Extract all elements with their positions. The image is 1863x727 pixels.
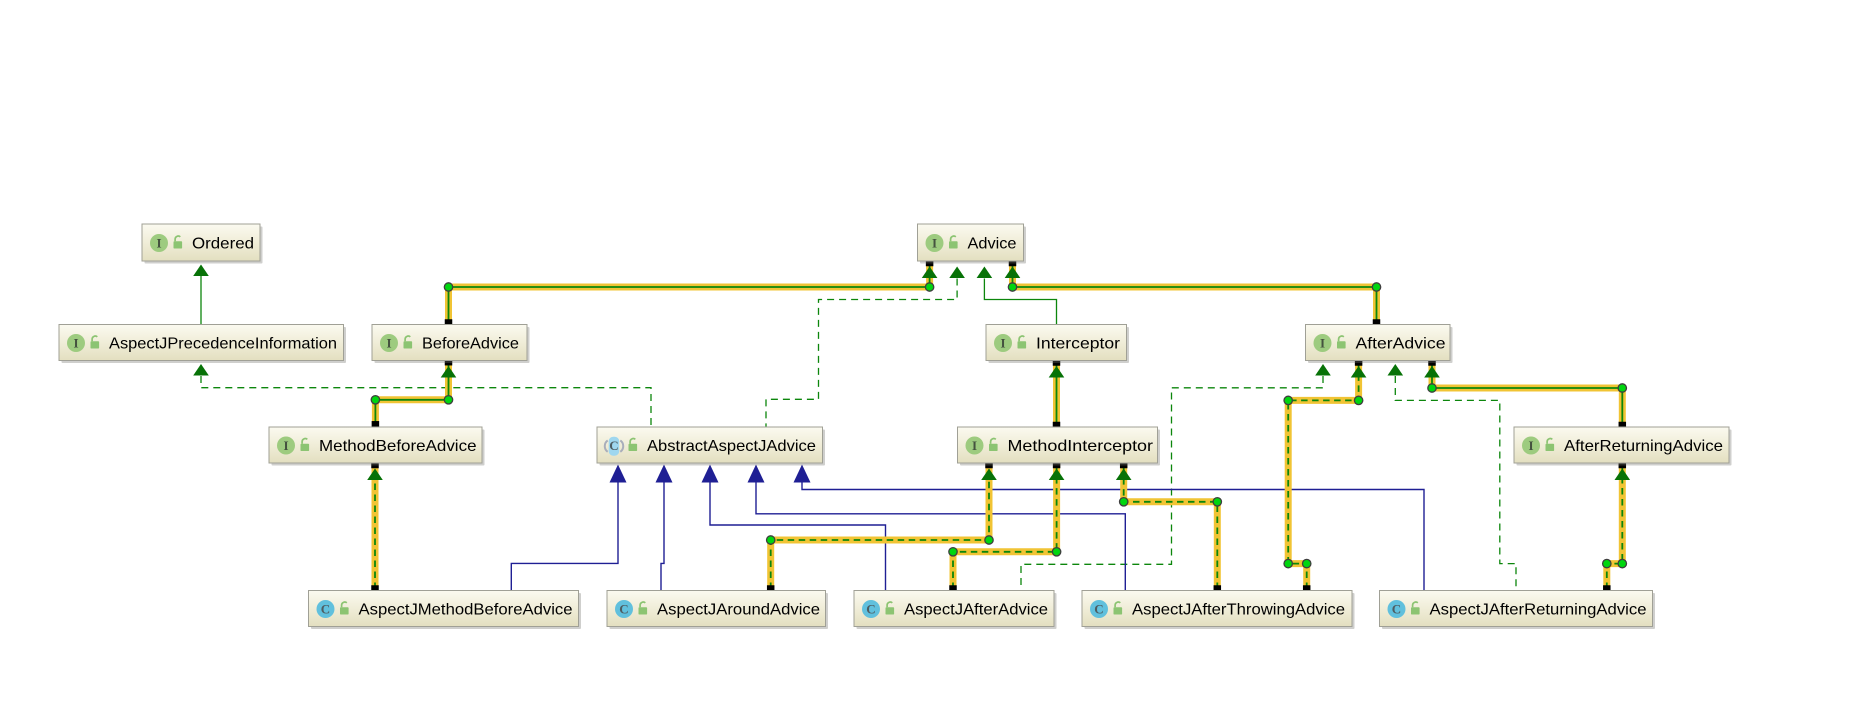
- arrowhead into Advice from BeforeAdvice: [922, 267, 938, 279]
- svg-text:AspectJAfterAdvice: AspectJAfterAdvice: [904, 602, 1048, 619]
- selected edge AspectJAfterReturningAdvice implements AfterReturningAdvice : highlight: [1607, 465, 1623, 590]
- arrowhead into MethodInterceptor from AspectJAfterThrowingAdvice: [1116, 469, 1132, 481]
- selected edge AspectJMethodBeforeAdvice implements MethodBeforeAdvice : highlight: [372, 465, 379, 590]
- svg-text:BeforeAdvice: BeforeAdvice: [422, 336, 519, 353]
- arrowhead into Ordered: [193, 265, 209, 277]
- arrowhead blue into AbstractAspectJAdvice 3: [702, 465, 719, 483]
- waypoint circle S2 b: [1008, 283, 1016, 291]
- selected edge AspectJAfterThrowingAdvice implements MethodInterceptor : highlight: [1124, 465, 1218, 590]
- svg-text:Ordered: Ordered: [192, 236, 254, 253]
- waypoint circle S11 a: [1603, 559, 1611, 567]
- svg-text:C: C: [609, 438, 618, 453]
- endpoint square S11 src: [1603, 585, 1611, 593]
- endpoint square S11 dst: [1619, 461, 1627, 469]
- endpoint square S9 dst: [1120, 461, 1128, 469]
- endpoint square S2 src: [1373, 319, 1381, 327]
- endpoint square S1 src: [445, 319, 453, 327]
- endpoint square S3 dst: [1053, 358, 1061, 366]
- selected edge AfterReturningAdvice extends AfterAdvice : line: [1432, 362, 1622, 426]
- selected edge AspectJAfterThrowingAdvice implements AfterAdvice : line: [1288, 362, 1358, 589]
- wire AspectJMethodBeforeAdvice extends AbstractAspectJAdvice: [511, 482, 618, 591]
- arrowhead into Advice from AbstractAspectJAdvice: [949, 267, 965, 279]
- node AbstractAspectJAdvice: [597, 427, 825, 466]
- waypoint circle S11 b: [1618, 559, 1626, 567]
- svg-text:C: C: [321, 602, 330, 617]
- wire AspectJAfterAdvice extends AbstractAspectJAdvice: [710, 482, 886, 591]
- endpoint square S6 src: [371, 585, 379, 593]
- selected edge AfterAdvice extends Advice : highlight: [1013, 263, 1377, 324]
- svg-text:I: I: [972, 438, 977, 453]
- svg-text:Advice: Advice: [968, 236, 1017, 253]
- node AspectJMethodBeforeAdvice: [309, 591, 582, 630]
- waypoint circle S2 a: [1372, 283, 1380, 291]
- wire AspectJAfterReturningAdvice implements AfterAdvice: [1395, 376, 1516, 591]
- svg-text:I: I: [1528, 438, 1533, 453]
- arrowhead blue into AbstractAspectJAdvice 1: [610, 465, 627, 483]
- svg-text:C: C: [866, 602, 875, 617]
- svg-text:C: C: [1392, 602, 1401, 617]
- arrowhead into AspectJPrecedenceInformation: [193, 364, 209, 376]
- waypoint circle S1 a: [444, 283, 452, 291]
- selected edge AfterAdvice extends Advice : line: [1013, 263, 1377, 324]
- endpoint square S10 dst: [1355, 358, 1363, 366]
- node Advice: [918, 224, 1027, 264]
- node AspectJAfterReturningAdvice: [1380, 591, 1656, 630]
- svg-text:MethodBeforeAdvice: MethodBeforeAdvice: [319, 438, 477, 455]
- selected edge AspectJAfterAdvice implements MethodInterceptor : highlight: [953, 465, 1057, 590]
- arrowhead into AfterAdvice from AfterReturningAdvice: [1424, 366, 1440, 378]
- selected edge MethodInterceptor extends Interceptor : highlight: [1053, 362, 1060, 426]
- endpoint square S5 dst: [1428, 358, 1436, 366]
- selected edge AspectJAroundAdvice implements MethodInterceptor : highlight: [771, 465, 989, 590]
- svg-text:AspectJPrecedenceInformation: AspectJPrecedenceInformation: [109, 336, 337, 353]
- selected edge MethodInterceptor extends Interceptor : line: [1056, 362, 1058, 426]
- selected edge BeforeAdvice extends Advice : line: [449, 263, 930, 324]
- wire Interceptor to Advice: [984, 279, 1056, 325]
- endpoint square S5 src: [1619, 422, 1627, 430]
- svg-text:C: C: [1094, 602, 1103, 617]
- waypoint circle S5 b: [1428, 384, 1436, 392]
- arrowhead into MethodBeforeAdvice: [367, 469, 383, 481]
- selected edge AfterReturningAdvice extends AfterAdvice : highlight: [1432, 362, 1622, 426]
- svg-text:I: I: [156, 236, 161, 251]
- selected edge MethodBeforeAdvice extends BeforeAdvice : line: [375, 362, 448, 425]
- svg-text:AspectJMethodBeforeAdvice: AspectJMethodBeforeAdvice: [359, 602, 573, 619]
- waypoint circle S10 b: [1284, 559, 1292, 567]
- waypoint circle S8 b: [1052, 548, 1060, 556]
- selected edge BeforeAdvice extends Advice : highlight: [449, 263, 930, 324]
- endpoint square S3 src: [1053, 422, 1061, 430]
- wire AbstractAspectJAdvice implements Advice: [766, 279, 957, 428]
- svg-text:AspectJAroundAdvice: AspectJAroundAdvice: [657, 602, 820, 619]
- endpoint square S10 src: [1303, 585, 1311, 593]
- endpoint square S7 src: [767, 585, 775, 593]
- selected edge MethodBeforeAdvice extends BeforeAdvice : highlight: [375, 362, 448, 425]
- selected edge AspectJAroundAdvice implements MethodInterceptor : line: [771, 465, 989, 590]
- arrowhead into AfterAdvice from AspectJAfterThrowingAdvice: [1351, 366, 1367, 378]
- node AspectJAroundAdvice: [607, 591, 828, 630]
- waypoint circle S10 d: [1354, 396, 1362, 404]
- selected edge AspectJAfterThrowingAdvice implements MethodInterceptor : line: [1124, 465, 1218, 590]
- waypoint circle S9 b: [1120, 498, 1128, 506]
- waypoint circle S4 b: [444, 396, 452, 404]
- endpoint square S9 src: [1214, 585, 1222, 593]
- arrowhead blue into AbstractAspectJAdvice 2: [656, 465, 673, 483]
- endpoint square S4 dst: [445, 358, 453, 366]
- arrowhead into AfterAdvice from AspectJAfterReturningAdvice: [1388, 364, 1404, 376]
- waypoint circle S9 a: [1213, 498, 1221, 506]
- node BeforeAdvice: [372, 325, 530, 364]
- wire AspectJAfterThrowingAdvice extends AbstractAspectJAdvice: [756, 482, 1125, 591]
- node AfterAdvice: [1306, 325, 1453, 364]
- svg-text:AspectJAfterReturningAdvice: AspectJAfterReturningAdvice: [1430, 602, 1647, 619]
- wire AbstractAspectJAdvice implements AspectJPrecedenceInformation: [201, 376, 651, 427]
- svg-text:Interceptor: Interceptor: [1036, 336, 1121, 353]
- svg-text:AfterReturningAdvice: AfterReturningAdvice: [1564, 438, 1723, 455]
- waypoint circle S8 a: [949, 548, 957, 556]
- arrowhead into Advice from AfterAdvice: [1005, 267, 1021, 279]
- svg-text:I: I: [932, 236, 937, 251]
- arrowhead into Interceptor: [1049, 366, 1065, 378]
- arrowhead into AfterReturningAdvice: [1615, 469, 1631, 481]
- wire AspectJAfterReturningAdvice extends AbstractAspectJAdvice: [802, 482, 1424, 591]
- endpoint square S1 dst: [926, 259, 934, 267]
- node MethodBeforeAdvice: [269, 427, 485, 466]
- arrowhead into Advice from Interceptor: [977, 267, 993, 279]
- svg-text:AfterAdvice: AfterAdvice: [1356, 336, 1446, 353]
- waypoint circle S1 b: [925, 283, 933, 291]
- endpoint square S6 dst: [371, 461, 379, 469]
- arrowhead into MethodInterceptor from AspectJAfterAdvice: [1049, 469, 1065, 481]
- svg-text:I: I: [386, 336, 391, 351]
- selected edge AspectJAfterThrowingAdvice implements AfterAdvice : highlight: [1288, 362, 1358, 589]
- svg-text:MethodInterceptor: MethodInterceptor: [1008, 438, 1154, 455]
- arrowhead blue into AbstractAspectJAdvice 5: [794, 465, 811, 483]
- waypoint circle S7 b: [985, 536, 993, 544]
- arrowhead into MethodInterceptor from AspectJAroundAdvice: [981, 469, 997, 481]
- waypoint circle S5 a: [1618, 384, 1626, 392]
- svg-text:AspectJAfterThrowingAdvice: AspectJAfterThrowingAdvice: [1132, 602, 1345, 619]
- endpoint square S4 src: [372, 421, 380, 429]
- selected edge AspectJAfterAdvice implements MethodInterceptor : line: [953, 465, 1057, 590]
- waypoint circle S7 a: [767, 536, 775, 544]
- node Ordered: [142, 224, 263, 264]
- svg-text:I: I: [283, 438, 288, 453]
- svg-text:AbstractAspectJAdvice: AbstractAspectJAdvice: [647, 438, 816, 455]
- svg-text:I: I: [1320, 336, 1325, 351]
- node AfterReturningAdvice: [1514, 427, 1732, 466]
- node AspectJAfterThrowingAdvice: [1082, 591, 1355, 630]
- svg-text:I: I: [1000, 336, 1005, 351]
- node Interceptor: [986, 325, 1129, 364]
- arrowhead into AfterAdvice from AspectJAfterAdvice: [1315, 364, 1331, 376]
- selected edge AspectJAfterReturningAdvice implements AfterReturningAdvice : line: [1607, 465, 1623, 590]
- waypoint circle S4 a: [371, 396, 379, 404]
- wire AspectJAfterAdvice implements AfterAdvice: [1021, 376, 1323, 591]
- endpoint square S8 dst: [1053, 461, 1061, 469]
- waypoint circle S10 c: [1284, 396, 1292, 404]
- svg-text:I: I: [73, 336, 78, 351]
- wire AspectJPrecedenceInformation to Ordered: [200, 276, 202, 325]
- arrowhead blue into AbstractAspectJAdvice 4: [748, 465, 765, 483]
- endpoint square S8 src: [949, 585, 957, 593]
- svg-text:C: C: [619, 602, 628, 617]
- endpoint square S7 dst: [985, 461, 993, 469]
- node AspectJAfterAdvice: [854, 591, 1057, 630]
- endpoint square S2 dst: [1009, 259, 1017, 267]
- selected edge AspectJMethodBeforeAdvice implements MethodBeforeAdvice : line: [374, 465, 376, 590]
- waypoint circle S10 a: [1303, 559, 1311, 567]
- arrowhead into BeforeAdvice: [441, 366, 457, 378]
- wire AspectJAroundAdvice extends AbstractAspectJAdvice: [661, 482, 664, 591]
- node MethodInterceptor: [958, 427, 1161, 466]
- node API: [59, 325, 346, 364]
